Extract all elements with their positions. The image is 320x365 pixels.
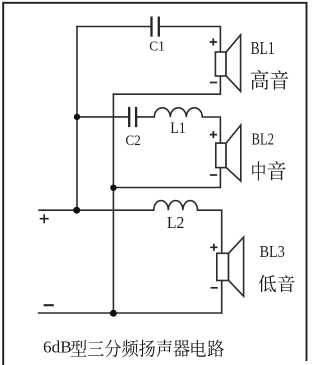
svg-text:6dB: 6dB — [43, 338, 72, 357]
svg-text:L1: L1 — [170, 120, 186, 137]
label L1 — [170, 120, 186, 137]
label BL2 minus terminal — [210, 174, 217, 176]
wire L1 to BL2 plus — [202, 117, 220, 143]
wire + terminal to L2 — [39, 209, 154, 211]
label caption char 三 — [88, 341, 104, 356]
wire + bus to C2 — [77, 116, 128, 118]
label BL2 plus terminal — [210, 131, 217, 138]
label C1 — [149, 39, 165, 54]
speaker BL3 cone — [228, 237, 243, 296]
node - input terminal — [44, 304, 54, 306]
label caption char 电 — [191, 340, 205, 357]
speaker BL2 driver box — [216, 143, 226, 168]
label BL2 zhong — [252, 161, 265, 180]
node junction - bus / BL2 return — [110, 185, 116, 191]
label BL1 yin — [270, 70, 288, 89]
wire C2 to L1 — [137, 116, 154, 118]
label caption char 扬 — [139, 340, 155, 357]
label caption 6dB — [43, 338, 72, 357]
label L2 — [167, 213, 185, 232]
wire - bus vertical — [112, 94, 114, 313]
label BL1 minus terminal — [210, 82, 217, 84]
label BL3 plus terminal — [210, 244, 217, 251]
label C2 — [126, 133, 141, 149]
speaker BL3 driver box — [217, 253, 229, 280]
label BL1 — [251, 38, 275, 58]
svg-text:BL2: BL2 — [252, 129, 275, 148]
label caption char 频 — [122, 340, 138, 357]
wire BL1 minus return — [113, 76, 220, 94]
label caption char 路 — [208, 340, 224, 357]
label BL1 gao — [251, 70, 269, 90]
capacitor C2 — [129, 107, 136, 127]
label BL2 — [252, 129, 275, 148]
speaker BL1 cone — [226, 35, 241, 91]
wire top from + bus to C1 — [77, 26, 150, 28]
svg-text:C1: C1 — [149, 39, 165, 54]
label BL1 plus terminal — [210, 38, 217, 45]
label BL2 yin — [268, 161, 286, 180]
svg-text:C2: C2 — [126, 133, 141, 149]
label caption char 型 — [71, 340, 87, 357]
inductor L1 — [154, 108, 202, 117]
wire BL3 minus down — [221, 281, 223, 314]
label BL3 minus terminal — [211, 287, 218, 289]
wire C1 to BL1 plus — [160, 27, 221, 53]
svg-text:BL3: BL3 — [260, 242, 285, 261]
label BL3 di — [258, 275, 276, 292]
speaker BL1 driver box — [215, 52, 226, 76]
wire + bus vertical — [76, 27, 78, 211]
wire BL2 minus return — [113, 168, 220, 188]
label BL3 — [260, 242, 285, 261]
node junction + bus / L2 branch — [73, 207, 80, 214]
node junction - bus / bottom return — [110, 310, 117, 317]
capacitor C1 — [152, 17, 159, 37]
inductor L2 — [154, 201, 198, 211]
label caption char 声 — [157, 340, 172, 357]
label caption char 器 — [173, 340, 189, 357]
wire bottom - return — [39, 312, 222, 314]
label BL3 yin — [278, 275, 295, 292]
wire L2 to BL3 plus — [198, 210, 222, 253]
svg-text:BL1: BL1 — [251, 38, 275, 58]
node + input terminal — [40, 214, 49, 223]
label caption char 分 — [105, 340, 121, 357]
node junction + bus / C2 branch — [74, 114, 80, 120]
speaker BL2 cone — [226, 125, 241, 181]
svg-text:L2: L2 — [167, 213, 185, 232]
